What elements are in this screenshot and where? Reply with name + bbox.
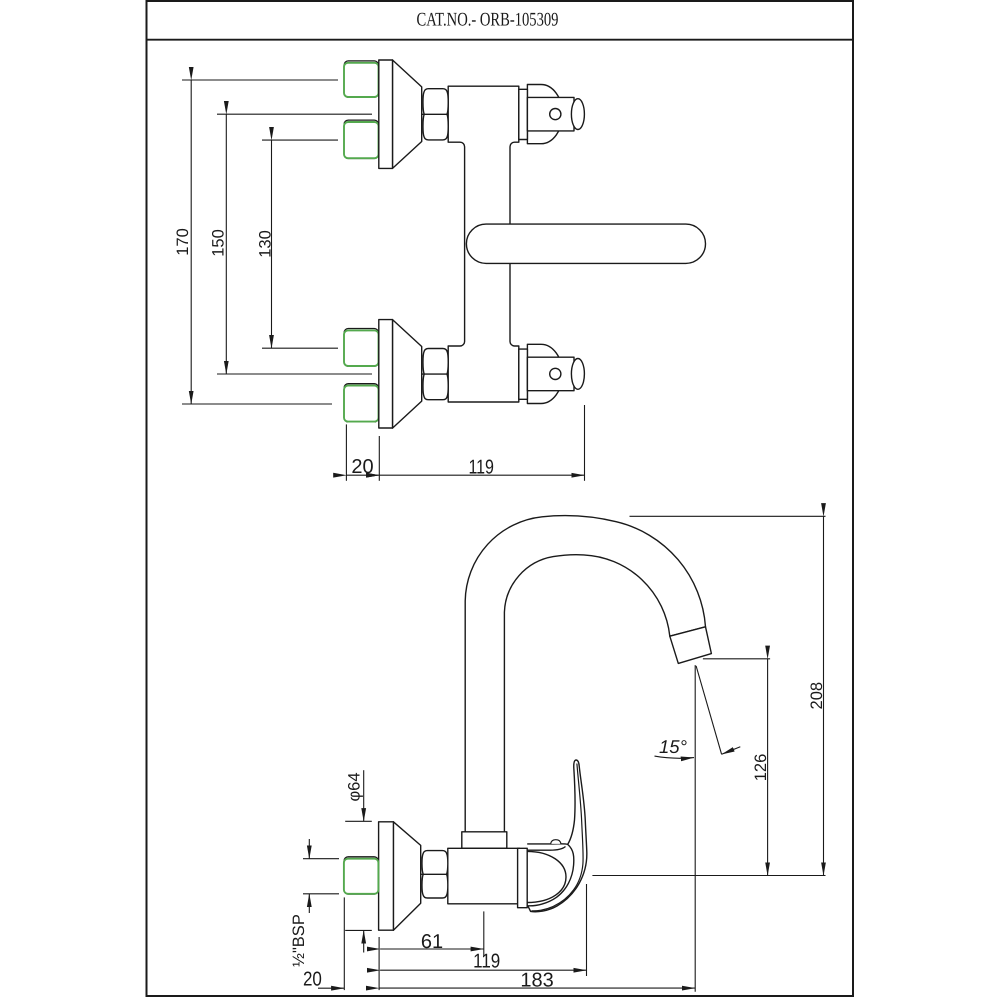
- dim 20 (side) extension lines: [343, 897, 345, 990]
- dim 130 line: [271, 140, 273, 348]
- connecting tube + valve body 1 + valve body 2 (combined outline): [448, 86, 519, 402]
- dim 20 (side) arrow: [318, 987, 344, 989]
- dim 20 extension lines (top view): [345, 424, 347, 480]
- handle tip cap 2: [571, 359, 584, 390]
- dim 119 (side) line: [380, 969, 586, 971]
- flange plate 1: [379, 60, 393, 168]
- handle tip cap 1: [571, 99, 584, 130]
- dim 119 (side) extension line right: [586, 884, 588, 976]
- title text CAT.NO.- ORB-105309: [417, 10, 559, 31]
- handle adapter plate 1: [519, 89, 528, 139]
- svg-text:20: 20: [303, 969, 322, 991]
- dim 130 extension lines: [262, 139, 338, 141]
- wall inlet 1 (green): [344, 61, 379, 97]
- flange cone 1: [393, 60, 422, 168]
- svg-text:15°: 15°: [659, 736, 687, 757]
- handle adapter plate 2: [519, 349, 528, 399]
- 15 deg arrow on flow line: [722, 747, 741, 755]
- flow centerline / dim 183 extension: [694, 665, 696, 992]
- dim phi64 arrows: [363, 770, 365, 821]
- svg-text:61: 61: [421, 931, 443, 953]
- handle screw 2: [550, 368, 561, 379]
- dim 150 line: [225, 114, 227, 374]
- hex nut 1: [423, 89, 448, 140]
- dim 61 extension line right (spout axis): [483, 911, 485, 956]
- wall inlet 2 (green): [344, 120, 379, 158]
- dim 119 line: [379, 474, 584, 476]
- dim 208 line: [823, 516, 825, 875]
- handle dome 1: [527, 85, 562, 144]
- flange cone (side): [393, 822, 420, 930]
- svg-text:20: 20: [351, 456, 373, 478]
- wall inlet 3 (green): [344, 329, 379, 367]
- handle stem 1: [527, 97, 574, 130]
- flange cone 2: [393, 320, 422, 429]
- hex nut 2: [423, 349, 448, 400]
- dim 126 line: [767, 659, 769, 876]
- handle screw 1: [550, 109, 561, 120]
- flange plate (side): [379, 822, 394, 930]
- dim 20 line: [346, 474, 379, 476]
- handle dome 2: [527, 344, 562, 403]
- dim 61 line: [380, 948, 484, 950]
- dim 170 line: [190, 80, 192, 404]
- border frame: [147, 1, 854, 996]
- svg-text:φ64: φ64: [346, 772, 364, 801]
- handle lever blade: [528, 760, 587, 912]
- dim half-BSP arrows: [308, 839, 310, 859]
- riser collar: [462, 832, 507, 849]
- dim 150 extension lines: [217, 113, 372, 115]
- 15 deg arc arrow: [655, 756, 695, 758]
- handle blade mid line: [531, 764, 583, 911]
- svg-text:170: 170: [174, 228, 192, 256]
- axis extension line (bottom of 126/208): [592, 875, 825, 877]
- dim 119 extension line right: [584, 405, 586, 481]
- handle adapter plate (side): [518, 848, 528, 907]
- handle stem 2: [527, 357, 574, 391]
- wall inlet (side, green): [344, 857, 379, 894]
- dim 170 extension lines: [182, 79, 338, 81]
- svg-text:150: 150: [210, 229, 228, 257]
- 15 deg flow line: [696, 666, 722, 754]
- aerator tip: [670, 627, 712, 664]
- svg-text:CAT.NO.- ORB-105309: CAT.NO.- ORB-105309: [417, 10, 559, 31]
- wall inlet 4 (green): [344, 384, 379, 422]
- handle mount collar: [527, 844, 568, 850]
- handle dome (side): [527, 851, 566, 902]
- svg-text:208: 208: [808, 682, 826, 710]
- svg-text:119: 119: [473, 951, 500, 973]
- hex nut (side): [422, 851, 448, 898]
- dim 208 extension line top: [630, 515, 826, 517]
- title separator: [147, 39, 854, 41]
- svg-text:119: 119: [468, 457, 494, 479]
- svg-text:130: 130: [257, 230, 275, 258]
- svg-text:126: 126: [752, 754, 770, 782]
- dim 126 extension line top: [703, 658, 770, 660]
- dim 183 line: [379, 987, 695, 989]
- dim phi64 extension lines: [345, 820, 372, 822]
- spout (plan): [466, 224, 705, 263]
- handle screw bump: [551, 840, 561, 844]
- flange plate 2: [379, 320, 393, 428]
- gooseneck spout tube: [465, 516, 705, 833]
- valve body (side): [448, 848, 520, 904]
- dim half-BSP extension lines: [303, 858, 339, 860]
- svg-text:½"BSP: ½"BSP: [290, 914, 308, 967]
- svg-text:183: 183: [520, 970, 553, 992]
